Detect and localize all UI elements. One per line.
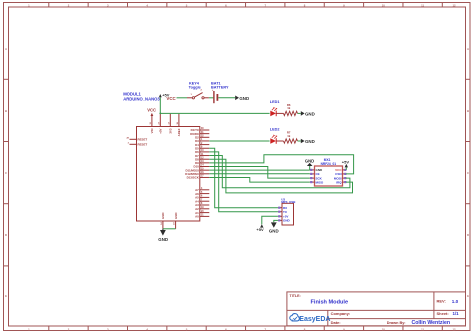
svg-text:Toggle: Toggle (189, 85, 201, 89)
svg-text:1.0: 1.0 (452, 299, 459, 304)
svg-text:BATTERY: BATTERY (211, 85, 229, 89)
svg-text:12: 12 (452, 4, 456, 8)
svg-text:ARDUINO_NANO3: ARDUINO_NANO3 (123, 96, 160, 101)
svg-text:Collin Wentzien: Collin Wentzien (412, 320, 451, 326)
svg-text:REV:: REV: (437, 299, 446, 304)
svg-text:1/1: 1/1 (453, 311, 460, 316)
svg-text:Date:: Date: (331, 320, 341, 325)
svg-text:GND: GND (269, 228, 279, 233)
svg-text:Finish Module: Finish Module (311, 300, 349, 306)
svg-text:TX: TX (283, 210, 287, 214)
svg-text:VIN: VIN (150, 129, 154, 134)
svg-text:Sheet:: Sheet: (437, 311, 449, 316)
svg-text:+5V: +5V (256, 227, 264, 232)
svg-text:12: 12 (452, 327, 456, 331)
svg-text:GND: GND (305, 139, 315, 144)
svg-text:11: 11 (421, 4, 424, 8)
svg-text:MP3_USB: MP3_USB (281, 200, 296, 204)
svg-text:VCC: VCC (147, 108, 156, 113)
svg-text:GND: GND (305, 111, 315, 116)
svg-text:A0: A0 (195, 215, 199, 219)
svg-text:10: 10 (382, 4, 386, 8)
svg-text:RESET: RESET (138, 143, 148, 147)
svg-text:10: 10 (382, 327, 386, 331)
svg-text:Company:: Company: (331, 311, 351, 316)
svg-text:MISO: MISO (316, 180, 324, 184)
svg-text:A: A (5, 47, 7, 51)
svg-text:B: B (467, 109, 469, 113)
svg-text:E: E (5, 294, 7, 298)
svg-text:E: E (467, 294, 469, 298)
svg-text:A: A (467, 47, 469, 51)
svg-text:1k: 1k (287, 134, 291, 138)
svg-text:RESET: RESET (138, 138, 148, 142)
svg-text:+5V: +5V (342, 159, 350, 164)
svg-text:B: B (5, 109, 7, 113)
svg-text:C: C (5, 171, 7, 175)
svg-text:Drawn By:: Drawn By: (387, 321, 406, 325)
svg-text:D: D (5, 233, 7, 237)
svg-text:3V3: 3V3 (169, 128, 173, 134)
svg-text:+5V: +5V (159, 128, 163, 133)
svg-text:GND: GND (158, 237, 168, 242)
svg-text:AREF: AREF (177, 128, 181, 136)
svg-text:GND: GND (305, 159, 314, 164)
svg-text:LED2: LED2 (270, 128, 280, 132)
svg-text:1k: 1k (287, 106, 291, 110)
svg-text:GND: GND (283, 219, 291, 223)
svg-text:D13/SCK: D13/SCK (187, 176, 200, 180)
svg-text:D: D (467, 233, 469, 237)
svg-text:GND: GND (174, 213, 178, 219)
svg-text:GND: GND (239, 96, 249, 101)
svg-text:TITLE:: TITLE: (290, 294, 301, 298)
svg-text:C: C (467, 171, 469, 175)
svg-text:NRF24_01: NRF24_01 (321, 162, 337, 166)
svg-text:11: 11 (421, 327, 424, 331)
svg-text:LED1: LED1 (270, 100, 280, 104)
svg-text:IRQ: IRQ (336, 180, 342, 184)
svg-text:VCC: VCC (166, 96, 176, 101)
svg-text:EasyEDA: EasyEDA (299, 316, 330, 323)
svg-text:GND: GND (161, 213, 165, 219)
